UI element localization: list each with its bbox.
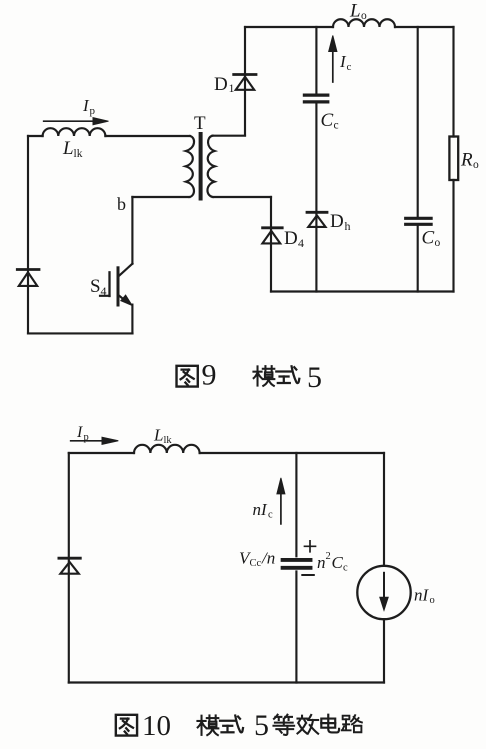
wire: figure9 top bus right segment (Lo to top-right corner) [395, 26, 454, 28]
resistor Ro [452, 27, 454, 137]
svg-text:o: o [430, 595, 435, 606]
svg-text:D: D [284, 228, 298, 249]
plus sign of n2Cc polarity [305, 541, 316, 552]
caption figure 10 : 式 [220, 716, 243, 733]
caption figure 10 : 效 [297, 715, 318, 734]
svg-text:o: o [361, 10, 367, 22]
current arrow Ip (figure9) [44, 120, 94, 122]
minus sign of n2Cc polarity [302, 574, 314, 576]
wire: figure10 bottom bus [69, 681, 384, 683]
svg-text:5: 5 [254, 709, 269, 742]
wire: figure10 left rail [68, 453, 70, 683]
wire: D1 anode branch vertical (top bus down to D1) [244, 27, 246, 75]
diode D (figure10 left rail) [59, 557, 80, 560]
caption figure 10 : 等 [273, 715, 294, 735]
transistor S4 (IGBT) [118, 264, 132, 277]
svg-text:4: 4 [298, 236, 304, 250]
current arrow nIc [280, 492, 282, 524]
inductor Llk [43, 128, 106, 136]
svg-text:c: c [268, 510, 273, 521]
transformer T primary winding [186, 136, 194, 197]
wire: figure9 bottom bus [271, 290, 454, 292]
caption figure 9 : 图 [177, 366, 198, 387]
svg-text:I: I [76, 424, 83, 441]
current source nIo [357, 566, 410, 619]
caption figure 10 : 路 [342, 715, 362, 732]
wire: primary bottom lead to node b [132, 196, 189, 198]
wire: figure9 left top wire (corner to Llk) [28, 135, 43, 137]
caption figure 10 : 电 [321, 715, 339, 733]
wire: D1 to transformer secondary top lead [213, 135, 246, 137]
wire: figure10 middle branch lower [295, 572, 297, 683]
svg-text:c: c [334, 120, 339, 132]
wire: Llk to transformer primary top lead [105, 135, 190, 137]
diode Dh [307, 211, 327, 214]
svg-text:9: 9 [202, 359, 217, 392]
svg-text:C: C [332, 553, 344, 572]
wire: figure10 middle branch upper [295, 453, 297, 556]
svg-text:D: D [214, 74, 228, 95]
transformer T core [199, 134, 203, 199]
svg-text:2: 2 [326, 551, 331, 562]
arrowhead of S4 emitter [121, 295, 132, 305]
wire: Cc to Dh branch [315, 103, 317, 291]
wire: figure10 right rail upper [383, 453, 385, 566]
svg-text:R: R [460, 150, 473, 171]
caption figure 10 : 模 [197, 715, 218, 735]
wire: figure9 top bus left segment (D1 node to Lo) [245, 26, 333, 28]
wire: figure10 top bus right segment [200, 452, 384, 454]
svg-text:nI: nI [414, 586, 430, 605]
svg-text:h: h [345, 219, 351, 233]
diode D4 [270, 197, 272, 292]
wire: secondary bottom lead to D4 branch [213, 196, 271, 198]
svg-text:/n: /n [261, 549, 275, 568]
capacitor n2Cc [283, 558, 311, 562]
diode D (unlabelled freewheel, left rail) [17, 268, 39, 271]
svg-text:p: p [84, 432, 89, 443]
svg-text:D: D [330, 211, 344, 232]
svg-text:c: c [347, 61, 352, 73]
wire: figure9 left vertical rail [27, 136, 29, 333]
svg-text:o: o [473, 159, 479, 171]
svg-text:S: S [90, 276, 101, 297]
svg-text:c: c [343, 563, 348, 574]
caption figure 9 : 模 [253, 366, 274, 386]
svg-text:4: 4 [101, 284, 107, 298]
capacitor Cc [315, 27, 317, 94]
wire: figure10 right rail lower [383, 619, 385, 682]
svg-text:L: L [349, 1, 361, 22]
diode D1 [234, 73, 256, 76]
svg-text:nI: nI [253, 500, 269, 519]
svg-text:n: n [317, 553, 326, 572]
current arrow Ip (figure10) [71, 440, 103, 442]
svg-text:C: C [422, 228, 435, 249]
wire: node b down to S4 collector [131, 197, 133, 264]
wire: figure10 top bus left segment [69, 452, 134, 454]
svg-text:lk: lk [164, 435, 173, 446]
svg-text:Cc: Cc [250, 558, 262, 569]
capacitor Co [417, 27, 419, 217]
caption figure 10 : 图 [116, 715, 137, 736]
wire: figure9 bottom-left return wire [28, 332, 133, 334]
transformer T secondary winding [207, 136, 214, 197]
caption figure 9 : 式 [276, 366, 299, 383]
svg-text:L: L [62, 138, 74, 159]
inductor Lo [333, 19, 395, 27]
svg-text:T: T [194, 113, 206, 134]
svg-text:L: L [153, 426, 163, 445]
svg-text:1: 1 [229, 81, 235, 95]
current arrow Ic [332, 49, 334, 82]
svg-text:b: b [117, 194, 126, 214]
svg-text:5: 5 [307, 361, 322, 394]
svg-text:o: o [435, 237, 441, 249]
inductor Llk (figure10) [134, 445, 200, 453]
svg-text:C: C [321, 110, 334, 131]
svg-text:p: p [90, 105, 96, 117]
svg-text:lk: lk [74, 148, 83, 160]
svg-text:10: 10 [142, 710, 171, 742]
